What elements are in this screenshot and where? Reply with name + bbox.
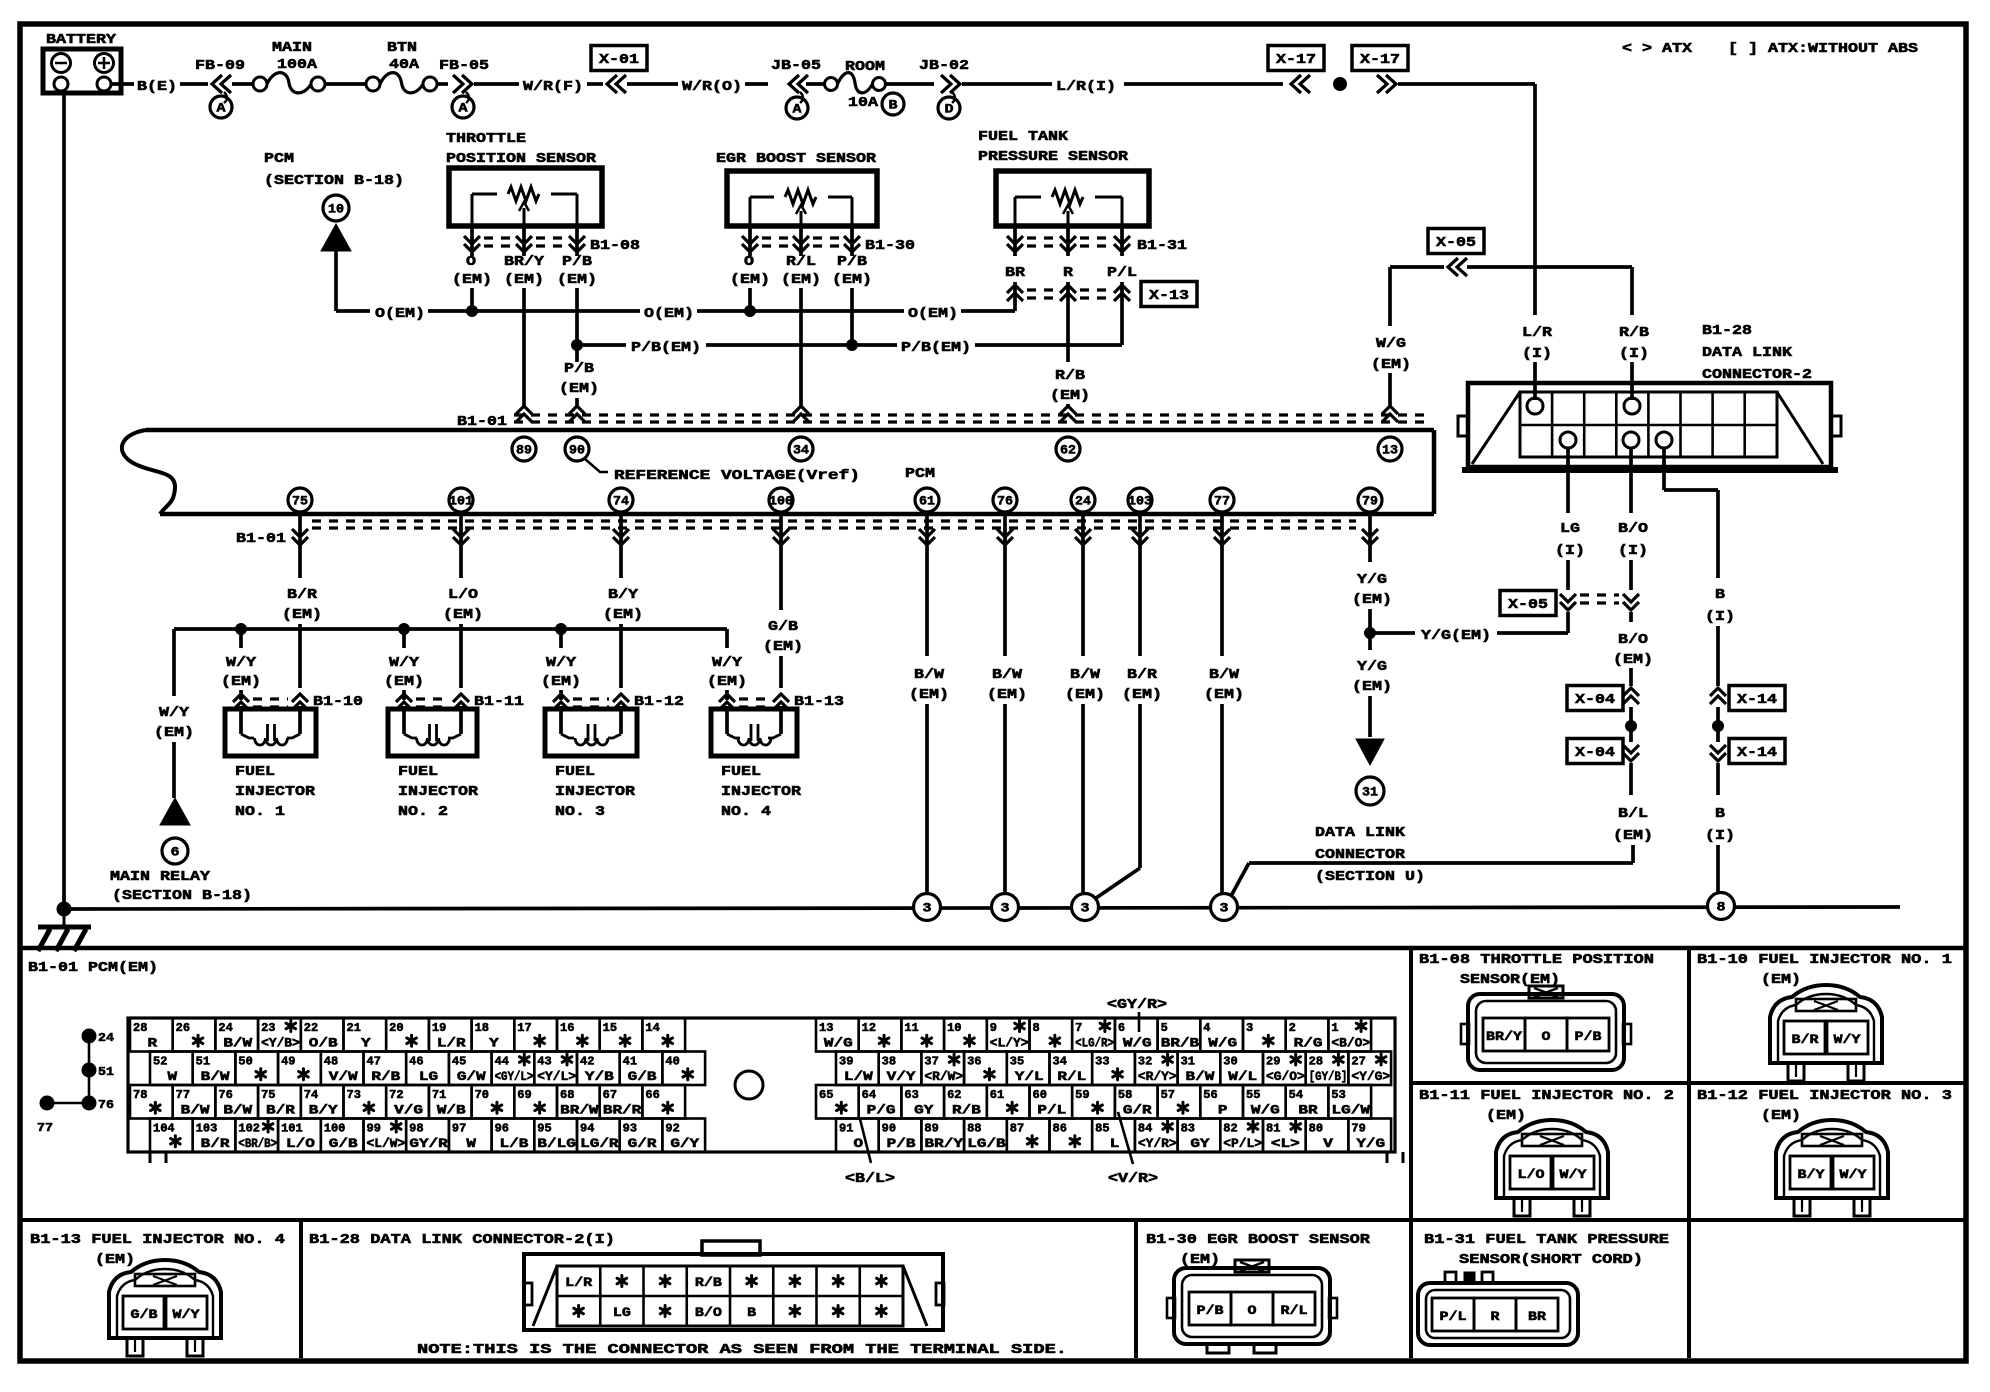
- svg-text:D: D: [945, 102, 954, 117]
- svg-text:B1-11: B1-11: [474, 695, 524, 710]
- svg-text:30: 30: [1223, 1056, 1237, 1069]
- net Y/G(EM) branch to X-05: [1370, 631, 1415, 635]
- svg-text:P/L: P/L: [1440, 1310, 1467, 1324]
- PCM module band: [146, 428, 1434, 433]
- svg-text:W/Y: W/Y: [712, 656, 743, 671]
- svg-text:42: 42: [580, 1056, 594, 1069]
- svg-text:NO. 3: NO. 3: [555, 805, 605, 820]
- svg-text:O(EM): O(EM): [375, 307, 425, 322]
- svg-text:10: 10: [328, 202, 344, 217]
- svg-text:40: 40: [665, 1056, 679, 1069]
- svg-text:16: 16: [560, 1022, 574, 1035]
- svg-text:73: 73: [347, 1089, 361, 1102]
- wire R/B (I) drop: [1630, 267, 1634, 315]
- svg-text:67: 67: [603, 1089, 617, 1102]
- bottom panel divider v1: [1409, 948, 1413, 1358]
- svg-text:P/L: P/L: [1037, 1104, 1066, 1118]
- svg-text:R/L: R/L: [1281, 1304, 1308, 1318]
- ground node 3 (pin 61): [914, 894, 941, 921]
- svg-text:(EM): (EM): [707, 675, 747, 690]
- svg-text:103: 103: [196, 1123, 218, 1136]
- svg-text:BR/B: BR/B: [1161, 1037, 1200, 1051]
- svg-text:75: 75: [292, 494, 308, 509]
- PCM pin 90: [565, 437, 589, 461]
- svg-text:FUEL TANK: FUEL TANK: [978, 130, 1069, 145]
- wire R to PCM pin 62 (R/B (EM)): [1066, 302, 1070, 362]
- fuse BTN 40A: [366, 77, 380, 91]
- svg-text:60: 60: [1033, 1089, 1047, 1102]
- svg-text:63: 63: [904, 1089, 918, 1102]
- svg-text:B1-31: B1-31: [1137, 239, 1187, 254]
- svg-text:BR/Y: BR/Y: [1486, 1030, 1523, 1044]
- svg-text:92: 92: [665, 1123, 679, 1136]
- svg-text:21: 21: [347, 1022, 361, 1035]
- svg-text:62: 62: [947, 1089, 961, 1102]
- svg-text:B1-12 FUEL INJECTOR NO. 3: B1-12 FUEL INJECTOR NO. 3: [1697, 1089, 1952, 1104]
- svg-text:O: O: [744, 255, 754, 270]
- svg-text:96: 96: [495, 1123, 509, 1136]
- svg-text:(EM): (EM): [1352, 593, 1392, 608]
- svg-text:6: 6: [1118, 1022, 1125, 1035]
- svg-text:76: 76: [997, 494, 1013, 509]
- svg-text:13: 13: [819, 1022, 833, 1035]
- ground node 8 (B wire): [1708, 893, 1735, 920]
- svg-text:O: O: [1542, 1030, 1552, 1044]
- svg-text:9: 9: [990, 1022, 997, 1035]
- connector X-04 pair: [1567, 686, 1623, 711]
- wire B (I) lower: [1716, 763, 1720, 795]
- svg-text:B1-08: B1-08: [590, 239, 640, 254]
- svg-text:L/W: L/W: [844, 1070, 873, 1084]
- svg-text:G/Y: G/Y: [670, 1137, 699, 1151]
- svg-text:77: 77: [176, 1089, 190, 1102]
- svg-text:38: 38: [882, 1056, 896, 1069]
- svg-text:<R/Y>: <R/Y>: [1138, 1070, 1177, 1084]
- svg-text:2: 2: [1289, 1022, 1296, 1035]
- connector X-01: [591, 46, 647, 71]
- svg-text:58: 58: [1118, 1089, 1132, 1102]
- svg-text:O: O: [854, 1137, 864, 1151]
- svg-text:28: 28: [133, 1022, 147, 1035]
- svg-text:28: 28: [1309, 1056, 1323, 1069]
- pin table right row 3: [816, 1085, 859, 1119]
- svg-text:LG/B: LG/B: [967, 1137, 1006, 1151]
- wire W/Y (EM) stub injector 4: [725, 629, 729, 648]
- svg-text:34: 34: [793, 443, 809, 458]
- svg-text:56: 56: [1203, 1089, 1217, 1102]
- svg-text:(I): (I): [1522, 347, 1552, 362]
- svg-text:52: 52: [153, 1056, 167, 1069]
- svg-text:X-13: X-13: [1149, 289, 1189, 304]
- svg-text:B/W: B/W: [201, 1070, 230, 1084]
- svg-text:LG/W: LG/W: [1332, 1104, 1371, 1118]
- svg-text:B/R: B/R: [1127, 668, 1158, 683]
- svg-text:B1-01: B1-01: [236, 532, 286, 547]
- svg-text:DATA LINK: DATA LINK: [1315, 826, 1406, 841]
- svg-text:B1-28 DATA LINK CONNECTOR-2(I): B1-28 DATA LINK CONNECTOR-2(I): [309, 1233, 615, 1248]
- svg-text:V: V: [1323, 1137, 1333, 1151]
- bottom panel sidebar divider: [1411, 1081, 1964, 1085]
- svg-text:X-01: X-01: [599, 53, 639, 68]
- svg-text:89: 89: [924, 1123, 938, 1136]
- svg-text:V/W: V/W: [329, 1070, 358, 1084]
- svg-text:L/O: L/O: [448, 588, 478, 603]
- svg-text:P/B(EM): P/B(EM): [631, 341, 701, 356]
- off-page arrow 31 data link connector: [1356, 777, 1384, 805]
- svg-text:(SECTION B-18): (SECTION B-18): [264, 174, 404, 189]
- svg-text:94: 94: [580, 1123, 594, 1136]
- fuse MAIN 100A: [253, 77, 267, 91]
- svg-text:< > ATX: < > ATX: [1622, 42, 1693, 57]
- svg-text:61: 61: [990, 1089, 1004, 1102]
- svg-text:31: 31: [1181, 1056, 1195, 1069]
- svg-text:PCM: PCM: [905, 467, 935, 482]
- svg-text:Y: Y: [489, 1037, 499, 1051]
- svg-text:<V/R>: <V/R>: [1108, 1172, 1158, 1187]
- svg-text:(EM): (EM): [1065, 688, 1105, 703]
- svg-text:B/W: B/W: [223, 1037, 252, 1051]
- pin table left row 1: [130, 1018, 173, 1052]
- wire B/L to ground node 3: [1231, 863, 1249, 896]
- svg-text:BR/R: BR/R: [603, 1104, 642, 1118]
- svg-text:Y/G(EM): Y/G(EM): [1421, 629, 1491, 644]
- svg-text:(EM): (EM): [1371, 358, 1411, 373]
- svg-text:B1-01: B1-01: [457, 415, 507, 430]
- svg-text:O(EM): O(EM): [644, 307, 694, 322]
- PCM pin 101: [449, 488, 473, 512]
- svg-text:36: 36: [967, 1056, 981, 1069]
- wire B/Y (EM) pin 74 to injector 3: [619, 514, 623, 578]
- wire W/Y (EM) stub injector 1: [239, 629, 243, 648]
- wire B/L (EM): [1629, 763, 1633, 795]
- svg-text:B/R: B/R: [1792, 1033, 1820, 1047]
- svg-text:L/B: L/B: [500, 1137, 529, 1151]
- svg-text:24: 24: [1075, 494, 1091, 509]
- svg-text:DATA LINK: DATA LINK: [1702, 346, 1793, 361]
- connector X-17 pair: [1268, 46, 1324, 71]
- svg-text:100: 100: [324, 1123, 346, 1136]
- svg-text:B: B: [889, 98, 898, 113]
- svg-text:(EM): (EM): [504, 273, 544, 288]
- wire fuse to fuse: [325, 82, 366, 86]
- svg-text:78: 78: [133, 1089, 147, 1102]
- svg-text:B/O: B/O: [1618, 633, 1648, 648]
- svg-text:W/Y: W/Y: [546, 656, 577, 671]
- svg-text:B1-31 FUEL TANK PRESSURE: B1-31 FUEL TANK PRESSURE: [1424, 1233, 1669, 1248]
- svg-text:W/G: W/G: [1208, 1037, 1237, 1051]
- svg-text:INJECTOR: INJECTOR: [235, 785, 316, 800]
- svg-text:G/B: G/B: [628, 1070, 657, 1084]
- svg-text:(EM): (EM): [452, 273, 492, 288]
- svg-text:3: 3: [1081, 901, 1090, 916]
- connector B1-01 pinout table outline: [128, 1018, 1395, 1152]
- svg-text:LG: LG: [1560, 522, 1580, 537]
- svg-text:6: 6: [171, 845, 180, 860]
- svg-text:X-17: X-17: [1360, 53, 1400, 68]
- svg-text:100A: 100A: [277, 58, 318, 73]
- svg-text:<BR/B>: <BR/B>: [238, 1137, 277, 1151]
- wire battery to ground bus (B- lead): [62, 91, 66, 909]
- svg-text:99: 99: [367, 1123, 381, 1136]
- svg-text:8: 8: [1033, 1022, 1040, 1035]
- svg-text:(EM): (EM): [95, 1253, 135, 1268]
- pin table side terminal markers: [82, 1029, 96, 1043]
- wire to L/R drop: [1398, 82, 1535, 86]
- svg-text:V/Y: V/Y: [887, 1070, 916, 1084]
- svg-text:FUEL: FUEL: [398, 765, 438, 780]
- svg-text:FUEL: FUEL: [555, 765, 595, 780]
- svg-text:FUEL: FUEL: [721, 765, 761, 780]
- svg-text:L/O: L/O: [286, 1137, 315, 1151]
- svg-text:B/W: B/W: [1070, 668, 1101, 683]
- svg-text:(EM): (EM): [1204, 688, 1244, 703]
- wire W/R(F): [474, 82, 519, 86]
- svg-text:45: 45: [452, 1056, 466, 1069]
- svg-text:<B/O>: <B/O>: [1331, 1037, 1370, 1051]
- svg-text:G/B: G/B: [768, 620, 798, 635]
- ground junction dot: [57, 902, 71, 916]
- DLC-2 pin L/R: [1527, 398, 1543, 414]
- svg-text:<Y/L>: <Y/L>: [537, 1070, 576, 1084]
- svg-text:41: 41: [623, 1056, 637, 1069]
- svg-text:B/Y: B/Y: [608, 588, 639, 603]
- svg-text:R: R: [1491, 1310, 1501, 1324]
- svg-text:Y/B: Y/B: [585, 1070, 614, 1084]
- svg-text:69: 69: [517, 1089, 531, 1102]
- bottom panel top border: [20, 946, 1964, 951]
- svg-text:P/L: P/L: [1107, 266, 1137, 281]
- svg-text:14: 14: [645, 1022, 659, 1035]
- svg-text:87: 87: [1010, 1123, 1024, 1136]
- pin table right row 1: [816, 1018, 859, 1052]
- svg-text:R/B: R/B: [695, 1276, 723, 1290]
- wire W/Y (EM) to main relay: [172, 629, 176, 696]
- svg-text:70: 70: [475, 1089, 489, 1102]
- svg-text:(EM): (EM): [541, 675, 581, 690]
- svg-text:B1-10 FUEL INJECTOR NO. 1: B1-10 FUEL INJECTOR NO. 1: [1697, 953, 1952, 968]
- svg-text:91: 91: [839, 1123, 853, 1136]
- svg-text:74: 74: [613, 494, 629, 509]
- svg-text:G/W: G/W: [457, 1070, 486, 1084]
- PCM pin 89: [512, 437, 536, 461]
- svg-text:34: 34: [1053, 1056, 1067, 1069]
- svg-text:B/L: B/L: [1618, 807, 1648, 822]
- svg-text:39: 39: [839, 1056, 853, 1069]
- svg-text:W/G: W/G: [1376, 337, 1406, 352]
- svg-text:X-05: X-05: [1508, 598, 1548, 613]
- svg-text:(EM): (EM): [763, 640, 803, 655]
- svg-text:P/B: P/B: [562, 255, 592, 270]
- reference voltage callout: [585, 459, 608, 472]
- svg-text:L/R: L/R: [437, 1037, 466, 1051]
- svg-text:51: 51: [196, 1056, 210, 1069]
- svg-text:X-14: X-14: [1737, 693, 1777, 708]
- svg-text:B/W: B/W: [914, 668, 945, 683]
- svg-text:P/G: P/G: [867, 1104, 896, 1118]
- connector X-13 inline crossing: [1013, 282, 1017, 302]
- pin table center hole: [735, 1071, 763, 1099]
- svg-text:ROOM: ROOM: [845, 60, 885, 75]
- svg-text:B1-30 EGR BOOST SENSOR: B1-30 EGR BOOST SENSOR: [1146, 1233, 1371, 1248]
- svg-text:(I): (I): [1705, 829, 1735, 844]
- svg-text:90: 90: [569, 443, 585, 458]
- svg-text:L/R: L/R: [1522, 326, 1553, 341]
- svg-text:L/R: L/R: [565, 1276, 593, 1290]
- PCM pin 103: [1128, 488, 1152, 512]
- svg-text:B: B: [747, 1306, 757, 1320]
- svg-text:W/L: W/L: [1228, 1070, 1257, 1084]
- svg-text:W/Y: W/Y: [1560, 1168, 1588, 1182]
- svg-text:W/Y: W/Y: [226, 656, 257, 671]
- svg-text:NO. 1: NO. 1: [235, 805, 285, 820]
- svg-text:104: 104: [153, 1123, 175, 1136]
- callout B/L to pin 91: [860, 1119, 871, 1163]
- fuel injector NO. 3: [553, 694, 569, 702]
- svg-text:40A: 40A: [389, 58, 420, 73]
- svg-text:20: 20: [389, 1022, 403, 1035]
- svg-text:FUEL: FUEL: [235, 765, 275, 780]
- PCM pin 75: [288, 488, 312, 512]
- wire B/W (EM) pin 24 to ground: [1081, 514, 1085, 656]
- svg-text:W/Y: W/Y: [159, 706, 190, 721]
- svg-text:(EM): (EM): [154, 726, 194, 741]
- svg-text:17: 17: [517, 1022, 531, 1035]
- net branch at y=267 to X-05 and R/B: [1390, 265, 1444, 269]
- connector X-14 pair: [1710, 688, 1726, 696]
- net W/Y(EM) injector supply bus: [174, 627, 727, 631]
- svg-text:BR/W: BR/W: [560, 1104, 599, 1118]
- wire P/L to P/B(EM) net: [1120, 302, 1124, 345]
- svg-text:48: 48: [324, 1056, 338, 1069]
- svg-text:<P/L>: <P/L>: [1223, 1137, 1262, 1151]
- svg-text:PRESSURE SENSOR: PRESSURE SENSOR: [978, 150, 1129, 165]
- svg-text:44: 44: [495, 1056, 509, 1069]
- svg-text:83: 83: [1181, 1123, 1195, 1136]
- svg-text:81: 81: [1266, 1123, 1280, 1136]
- svg-text:X-04: X-04: [1575, 693, 1615, 708]
- fuel injector NO. 1: [233, 694, 249, 702]
- svg-text:B1-10: B1-10: [313, 695, 363, 710]
- bottom row divider B1-28/B1-30: [1134, 1220, 1138, 1358]
- svg-text:13: 13: [1382, 443, 1398, 458]
- svg-text:<R/W>: <R/W>: [924, 1070, 963, 1084]
- svg-text:B1-11 FUEL INJECTOR NO. 2: B1-11 FUEL INJECTOR NO. 2: [1419, 1089, 1674, 1104]
- wire L/R (I) drop from X-17: [1533, 84, 1537, 315]
- svg-text:INJECTOR: INJECTOR: [721, 785, 802, 800]
- svg-text:93: 93: [623, 1123, 637, 1136]
- wire B/O (I): [1629, 448, 1633, 513]
- svg-text:B1-30: B1-30: [865, 239, 915, 254]
- bottom panel row divider: [20, 1218, 1964, 1222]
- svg-text:(EM): (EM): [282, 608, 322, 623]
- svg-text:W/G: W/G: [1251, 1104, 1280, 1118]
- svg-text:R/G: R/G: [1294, 1037, 1323, 1051]
- PCM pin 77: [1210, 488, 1234, 512]
- svg-text:FB-05: FB-05: [439, 59, 489, 74]
- svg-text:11: 11: [904, 1022, 918, 1035]
- ground symbol: [63, 909, 66, 926]
- svg-text:3: 3: [923, 901, 932, 916]
- svg-text:(EM): (EM): [730, 273, 770, 288]
- svg-text:<G/O>: <G/O>: [1266, 1070, 1305, 1084]
- pin table left row 3: [130, 1085, 173, 1119]
- svg-text:66: 66: [645, 1089, 659, 1102]
- svg-text:57: 57: [1161, 1089, 1175, 1102]
- svg-text:32: 32: [1138, 1056, 1152, 1069]
- wire B/W (EM) pin 76 to ground: [1003, 514, 1007, 656]
- DLC-2 pin LG: [1560, 432, 1576, 448]
- svg-text:85: 85: [1095, 1123, 1109, 1136]
- svg-text:L/O: L/O: [1518, 1168, 1546, 1182]
- wire B/W (EM) pin 77 to ground: [1220, 514, 1224, 656]
- svg-text:76: 76: [218, 1089, 232, 1102]
- wire B/O (EM): [1629, 612, 1633, 622]
- svg-text:<GY/L>: <GY/L>: [495, 1070, 534, 1084]
- bottom row divider B1-13/B1-28: [299, 1220, 303, 1358]
- svg-text:95: 95: [537, 1123, 551, 1136]
- svg-text:19: 19: [432, 1022, 446, 1035]
- connector FB-05: [437, 82, 448, 86]
- svg-text:X-04: X-04: [1575, 746, 1615, 761]
- svg-text:P/B: P/B: [1575, 1030, 1603, 1044]
- svg-text:33: 33: [1095, 1056, 1109, 1069]
- svg-text:79: 79: [1362, 494, 1378, 509]
- svg-text:B(E): B(E): [137, 80, 177, 95]
- PCM pin 100: [769, 488, 793, 512]
- svg-text:22: 22: [304, 1022, 318, 1035]
- svg-text:W/Y: W/Y: [1840, 1168, 1868, 1182]
- svg-text:10: 10: [947, 1022, 961, 1035]
- svg-text:61: 61: [919, 494, 935, 509]
- svg-text:R/B: R/B: [1055, 369, 1085, 384]
- svg-text:INJECTOR: INJECTOR: [555, 785, 636, 800]
- svg-text:P: P: [1218, 1104, 1228, 1118]
- svg-text:X-14: X-14: [1737, 746, 1777, 761]
- svg-text:97: 97: [452, 1123, 466, 1136]
- svg-text:X-05: X-05: [1436, 236, 1476, 251]
- svg-text:101: 101: [449, 494, 473, 509]
- wire W/G (EM) to PCM pin 13: [1388, 267, 1392, 326]
- svg-text:R: R: [148, 1037, 158, 1051]
- svg-text:79: 79: [1351, 1123, 1365, 1136]
- svg-text:(EM): (EM): [1352, 680, 1392, 695]
- svg-text:49: 49: [281, 1056, 295, 1069]
- svg-text:B1-13: B1-13: [794, 695, 844, 710]
- svg-text:<Y/G>: <Y/G>: [1351, 1070, 1390, 1084]
- wire B/R (EM) pin 75 to injector 1: [298, 514, 302, 578]
- net O(EM) horizontal: [336, 309, 370, 313]
- net P/B(EM) horizontal: [577, 343, 626, 347]
- svg-text:V/G: V/G: [394, 1104, 423, 1118]
- svg-text:(EM): (EM): [1122, 688, 1162, 703]
- svg-text:B/R: B/R: [287, 588, 318, 603]
- svg-text:B1-28: B1-28: [1702, 324, 1752, 339]
- ground node 3 (pin 77): [1211, 894, 1238, 921]
- svg-text:53: 53: [1331, 1089, 1345, 1102]
- svg-text:3: 3: [1246, 1022, 1253, 1035]
- connector B1-08 inline crossing: [470, 226, 474, 256]
- svg-text:(EM): (EM): [1613, 829, 1653, 844]
- PCM pin 76: [993, 488, 1017, 512]
- svg-text:80: 80: [1309, 1123, 1323, 1136]
- svg-text:100: 100: [769, 494, 793, 509]
- svg-text:B: B: [1715, 588, 1725, 603]
- svg-text:47: 47: [367, 1056, 381, 1069]
- svg-text:50: 50: [238, 1056, 252, 1069]
- callout V/R to pin 85: [1118, 1112, 1133, 1164]
- svg-text:B: B: [1715, 807, 1725, 822]
- svg-text:B/Y: B/Y: [1798, 1168, 1826, 1182]
